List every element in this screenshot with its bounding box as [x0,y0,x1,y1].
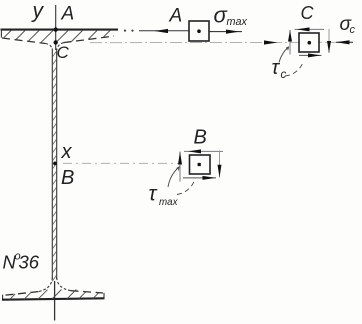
label sigma_max [214,3,248,29]
svg-text:τ: τ [149,183,158,206]
stress element C: shear arrow bottom [299,53,322,57]
svg-text:c: c [350,24,356,36]
svg-text:B: B [194,127,207,149]
I-beam bottom flange [2,278,105,300]
stress element B: shear arrow left [178,152,182,182]
label tau_max with leader arcs [149,167,196,208]
wire dash-dot at level C [90,41,336,43]
hatch web [52,51,57,282]
node y-axis [31,0,56,321]
stress element C: sigma_c arrow right (compression) [336,40,353,44]
stress element B: shear arrow top [184,149,223,153]
stress element C: shear arrow right [327,29,331,53]
svg-text:max: max [159,197,179,208]
stress element C: square [299,33,319,52]
svg-text:max: max [227,16,248,28]
svg-text:σ: σ [214,3,228,28]
node B (neutral axis point) [53,162,74,190]
svg-text:x: x [61,141,73,163]
svg-text:C: C [301,3,315,23]
node A (top fibre point) [54,4,75,32]
beam size label №36 [3,251,40,273]
wire dash-dot at level A [124,30,190,32]
node C (flange-web junction point) [54,40,70,62]
hatch top flange [4,31,110,44]
svg-text:A: A [61,4,75,25]
stress element C: sigma_c arrow left (compression) [264,40,278,44]
svg-text:36: 36 [19,252,40,273]
stress element B: shear arrow right [218,151,222,178]
I-beam top flange [1,30,119,50]
stress element A: square [189,21,209,41]
label tau_c with leader arcs [272,47,304,81]
stress element C: shear arrow left [288,30,292,55]
svg-text:c: c [281,69,287,81]
stress element C: shear arrow top [295,27,325,31]
svg-text:y: y [31,0,45,23]
svg-text:A: A [169,6,183,27]
I-beam web [52,49,56,280]
label sigma_c [340,14,356,36]
node x-axis [61,141,182,163]
stress element B: square [190,155,211,174]
stress element B: shear arrow bottom [183,176,216,180]
svg-text:C: C [57,43,70,62]
svg-text:B: B [61,167,74,189]
stress element A: sigma_max arrow left [155,29,169,33]
stress element A: sigma_max arrow right [209,30,242,34]
hatch bottom flange [10,290,99,300]
